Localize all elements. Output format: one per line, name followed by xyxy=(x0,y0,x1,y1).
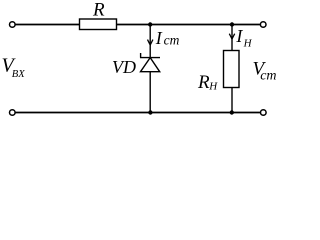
svg-text:H: H xyxy=(243,38,253,50)
wire: zener branch upper xyxy=(149,25,151,58)
svg-text:R: R xyxy=(92,0,105,20)
wire: top-left segment xyxy=(15,24,79,26)
terminal: output top-right xyxy=(260,22,266,28)
node: junction top-left (zener branch) xyxy=(148,22,152,26)
terminal: input bottom-left xyxy=(10,110,16,116)
wire: bottom rail xyxy=(15,112,260,114)
svg-text:BX: BX xyxy=(12,69,25,80)
wire: load branch upper xyxy=(231,25,233,51)
resistor R xyxy=(80,19,117,30)
svg-text:VD: VD xyxy=(112,57,136,77)
node: junction bottom-left xyxy=(148,110,152,114)
resistor R_H (load) xyxy=(224,51,240,88)
arrow: current I_H direction xyxy=(229,34,234,39)
wire: zener branch lower xyxy=(149,72,151,113)
svg-text:I: I xyxy=(155,28,163,48)
node: junction top-right (load branch) xyxy=(230,22,234,26)
arrow: current I_cm direction xyxy=(148,40,153,45)
node: junction bottom-right xyxy=(230,110,234,114)
svg-text:cm: cm xyxy=(260,69,276,84)
svg-text:I: I xyxy=(235,26,243,46)
zener diode VD xyxy=(140,53,160,72)
wire: top-middle segment xyxy=(117,24,261,26)
terminal: input top-left xyxy=(10,22,16,28)
svg-text:R: R xyxy=(197,72,210,93)
wire: load branch lower xyxy=(231,88,233,113)
svg-text:H: H xyxy=(208,81,218,93)
terminal: output bottom-right xyxy=(261,110,267,116)
svg-text:cm: cm xyxy=(164,33,180,48)
